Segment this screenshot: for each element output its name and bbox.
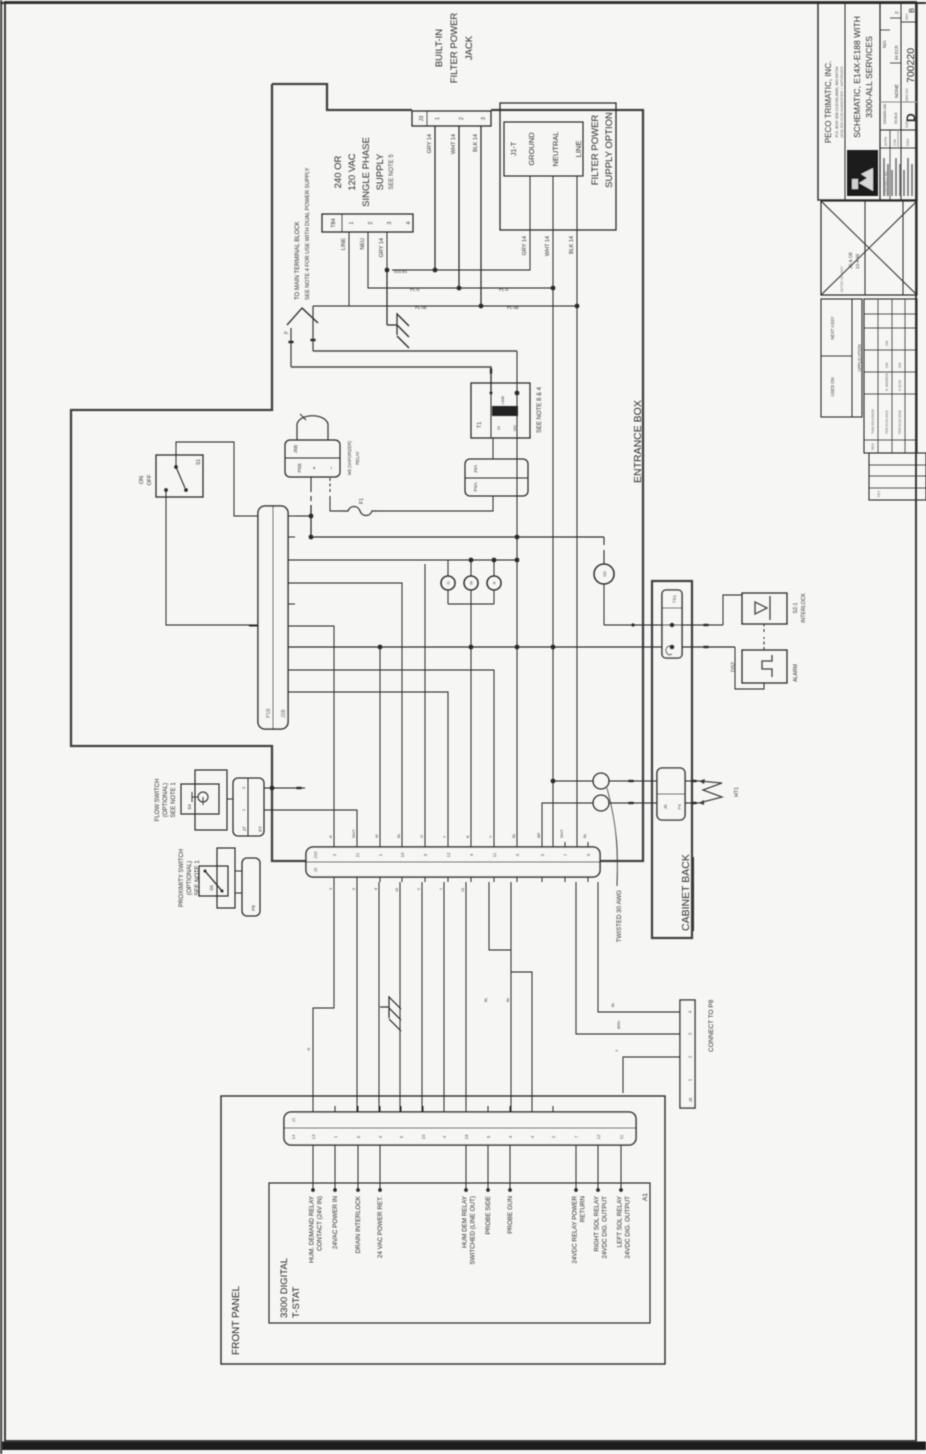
- svg-text:O: O: [420, 835, 424, 838]
- terminal block TB4: [322, 214, 413, 232]
- wire row y400: [399, 882, 401, 1112]
- junction y517 at A-bus: [515, 535, 520, 540]
- svg-text:P4A: P4A: [473, 482, 479, 492]
- svg-text:TWISTED 30 AWG: TWISTED 30 AWG: [616, 890, 623, 943]
- svg-text:DM: DM: [898, 363, 902, 368]
- svg-text:GRY 14: GRY 14: [379, 238, 385, 257]
- svg-text:TO MAIN TERMINAL BLOCK: TO MAIN TERMINAL BLOCK: [295, 221, 301, 300]
- cells: [889, 130, 891, 200]
- svg-text:NOTED ON ASSY: NOTED ON ASSY: [840, 265, 844, 292]
- svg-text:8: 8: [356, 1135, 361, 1138]
- svg-text:D: D: [904, 113, 918, 122]
- wire to T1 primary left: [291, 367, 491, 393]
- svg-text:RELAY: RELAY: [355, 451, 360, 465]
- svg-text:NEU: NEU: [360, 238, 366, 250]
- svg-text:BRN: BRN: [617, 1021, 621, 1029]
- wire line feed long y517: [516, 351, 518, 847]
- wire P1B pin y583 to J2 y402: [288, 583, 402, 847]
- connector P9: [242, 858, 260, 916]
- svg-text:3: 3: [242, 787, 246, 789]
- svg-text:24VAC POWER IN: 24VAC POWER IN: [332, 1196, 339, 1250]
- svg-text:ALARM: ALARM: [793, 664, 799, 682]
- svg-text:8: 8: [374, 888, 378, 890]
- indicator lamps: [447, 560, 449, 576]
- svg-text:FILTER POWER: FILTER POWER: [590, 115, 601, 186]
- flow switch S4: [195, 770, 227, 830]
- P1B pin stub: [288, 603, 295, 605]
- wire J1 internal y313: [312, 1145, 314, 1190]
- svg-text:#14-6S: #14-6S: [394, 269, 407, 274]
- svg-text:INTERLOCK: INTERLOCK: [801, 593, 807, 623]
- svg-text:11: 11: [492, 852, 497, 857]
- revision table extension: [869, 453, 926, 500]
- wire J1 internal y576: [575, 1145, 577, 1190]
- wire bus into DS2: [735, 647, 764, 689]
- application table: [821, 299, 862, 417]
- svg-text:J6: J6: [663, 804, 668, 809]
- svg-text:16: 16: [395, 888, 399, 892]
- svg-text:7: 7: [563, 853, 568, 856]
- connector J4A/P4A: [465, 459, 528, 496]
- cabinet back boundary box: [652, 581, 692, 938]
- svg-text:GRY 14: GRY 14: [427, 134, 433, 153]
- svg-text:(OPTIONAL): (OPTIONAL): [163, 783, 169, 817]
- wire P1B pin to J2 y448: [288, 692, 448, 847]
- svg-text:3: 3: [387, 221, 393, 224]
- lamp 2: [464, 576, 478, 590]
- company logo: [847, 150, 878, 196]
- svg-text:14: 14: [291, 1134, 296, 1140]
- svg-text:T1: T1: [477, 422, 483, 429]
- P1B pin stub: [288, 691, 295, 693]
- wire J1 internal y621: [620, 1145, 622, 1190]
- neon indicator circle device: [603, 537, 605, 545]
- svg-text:6: 6: [515, 853, 520, 856]
- wire J1 internal y380: [379, 1145, 381, 1190]
- svg-text:W: W: [469, 581, 474, 585]
- P1B pin stub: [288, 515, 295, 517]
- wire J7 pin3 down: [264, 787, 305, 789]
- frame right (portrait top edge): [0, 2, 926, 4]
- svg-text:GROUND: GROUND: [527, 132, 536, 166]
- svg-text:1: 1: [439, 888, 443, 890]
- junction y517 at 647-bus: [515, 645, 520, 650]
- svg-text:DRAWN DM: DRAWN DM: [883, 104, 887, 124]
- svg-text:BLK 14: BLK 14: [473, 134, 479, 152]
- wire lamp rail x850: [448, 603, 494, 605]
- svg-text:P1-NE: P1-NE: [415, 305, 427, 310]
- wire switch top to P1B: [176, 442, 240, 516]
- svg-text:24VDC RELAY POWER: 24VDC RELAY POWER: [572, 1196, 579, 1264]
- svg-text:15: 15: [461, 888, 465, 892]
- svg-text:2: 2: [894, 11, 900, 14]
- svg-text:6: 6: [399, 1135, 404, 1138]
- scan dark edge (portrait left): [0, 0, 2, 1454]
- wire J1-T neutral long: [552, 176, 554, 847]
- svg-text:24 VAC POWER RET.: 24 VAC POWER RET.: [377, 1196, 384, 1258]
- svg-text:P4: P4: [677, 804, 682, 810]
- svg-text:RETURN: RETURN: [580, 1196, 587, 1223]
- svg-text:G: G: [446, 581, 451, 584]
- svg-text:VAC: VAC: [513, 424, 517, 431]
- svg-text:12: 12: [446, 852, 451, 858]
- svg-text:T-STAT: T-STAT: [291, 1286, 302, 1318]
- svg-text:7: 7: [574, 1135, 579, 1138]
- wire row y379: [378, 882, 380, 1112]
- heater element HT1: [699, 781, 722, 803]
- wire to S2-1: [723, 595, 742, 625]
- svg-text:JACK: JACK: [464, 35, 475, 60]
- svg-text:CONNECT TO P8: CONNECT TO P8: [708, 999, 715, 1052]
- svg-text:10: 10: [421, 1134, 426, 1140]
- junction neutral bus to neutral wire: [551, 286, 556, 291]
- revision table: [864, 299, 917, 453]
- switch S1 on/off: [156, 455, 203, 497]
- svg-text:A: A: [492, 581, 497, 584]
- svg-text:PECO TRIMATIC, INC.: PECO TRIMATIC, INC.: [824, 61, 833, 143]
- wire J1 internal y488: [487, 1145, 489, 1190]
- wire J1 internal y598: [597, 1145, 599, 1190]
- svg-text:700220: 700220: [905, 48, 917, 83]
- svg-text:BLK 14: BLK 14: [569, 236, 575, 254]
- svg-text:R: R: [306, 1047, 311, 1050]
- P1B pin stub: [288, 536, 295, 538]
- wire J1-T line long: [576, 176, 578, 847]
- svg-text:S2-1: S2-1: [793, 602, 799, 613]
- svg-text:P9: P9: [251, 905, 256, 911]
- transformer T1: [471, 383, 530, 438]
- svg-text:S6: S6: [209, 885, 214, 891]
- svg-text:BL: BL: [484, 997, 488, 1002]
- wire row y444: [443, 882, 445, 1112]
- alarm DS2: [742, 650, 787, 683]
- svg-text:1: 1: [378, 853, 383, 856]
- svg-text:P7: P7: [258, 826, 263, 832]
- svg-text:B: B: [907, 8, 916, 13]
- svg-text:J8: J8: [688, 1097, 693, 1102]
- junction relay+ to A bus: [309, 535, 314, 540]
- svg-text:WHT: WHT: [352, 829, 356, 838]
- svg-text:+: +: [312, 466, 318, 469]
- svg-text:(816) 555-0128 HUMIDIFIER + V: (816) 555-0128 HUMIDIFIER + VAPORIZER: [840, 66, 844, 138]
- svg-text:11: 11: [355, 852, 360, 857]
- svg-text:J1B: J1B: [281, 709, 287, 718]
- terminal strip TB1: [662, 590, 682, 658]
- lamp 3: [487, 576, 501, 590]
- wire J1 internal y466: [465, 1145, 467, 1190]
- svg-text:1: 1: [349, 221, 355, 224]
- svg-text:24: 24: [497, 426, 501, 430]
- svg-text:TB1: TB1: [672, 594, 677, 603]
- svg-text:J1-T: J1-T: [511, 141, 518, 156]
- svg-text:18: 18: [464, 1134, 469, 1140]
- svg-text:CHK: CHK: [893, 138, 897, 146]
- svg-text:4: 4: [442, 1135, 447, 1138]
- svg-text:LINE: LINE: [341, 238, 347, 251]
- wire chevron upper stub: [290, 328, 292, 367]
- svg-text:−: −: [329, 466, 335, 469]
- junction J3-3 to line bus: [479, 304, 484, 309]
- wire to T1 primary right / line feed: [313, 350, 517, 352]
- svg-text:BL: BL: [284, 331, 289, 335]
- wire A bus vertical x917: [311, 536, 604, 538]
- svg-text:3: 3: [481, 117, 487, 120]
- svg-text:DS2: DS2: [731, 662, 737, 672]
- svg-text:P1-N: P1-N: [499, 287, 508, 292]
- junction J3-2 to neutral bus: [457, 286, 462, 291]
- connector J6/P4: [657, 768, 685, 820]
- svg-text:A1: A1: [642, 1193, 649, 1201]
- svg-text:120 VAC: 120 VAC: [347, 153, 358, 190]
- svg-text:MS (VAPORIZER): MS (VAPORIZER): [347, 440, 352, 475]
- junction relay+ to P1B pin: [309, 514, 314, 519]
- svg-text:PER ECN 4415: PER ECN 4415: [885, 410, 889, 434]
- junction ground rail: [385, 268, 390, 273]
- wire TB4-3 GRY ground rail: [386, 232, 388, 270]
- svg-text:ENTRANCE BOX: ENTRANCE BOX: [632, 400, 644, 483]
- wire twisted pair upper from neutral: [553, 780, 593, 782]
- svg-text:FRONT PANEL: FRONT PANEL: [231, 1285, 242, 1355]
- leader twisted 30 awg: [607, 788, 617, 886]
- svg-text:J10: J10: [313, 851, 318, 859]
- svg-text:P1B: P1B: [266, 708, 272, 718]
- wire row y466: [465, 882, 467, 1112]
- svg-text:2: 2: [551, 1135, 556, 1138]
- svg-text:J7: J7: [242, 826, 247, 831]
- tolerance notes block: [883, 158, 885, 196]
- svg-text:24VDC DIG. OUTPUT: 24VDC DIG. OUTPUT: [625, 1196, 632, 1259]
- svg-text:5: 5: [352, 888, 356, 890]
- svg-text:SEE NOTE 4 FOR USE WITH DUAL P: SEE NOTE 4 FOR USE WITH DUAL POWER SUPPL…: [305, 167, 311, 300]
- svg-text:PROXIMITY SWITCH: PROXIMITY SWITCH: [179, 849, 185, 907]
- svg-text:DM: DM: [885, 341, 889, 346]
- svg-text:SINGLE PHASE: SINGLE PHASE: [361, 137, 372, 207]
- wire switch bottom to P1B top pin: [166, 490, 258, 625]
- svg-text:P1-NE: P1-NE: [507, 305, 519, 310]
- wire J1 internal y358: [357, 1145, 359, 1190]
- svg-text:SEE NOTE 5: SEE NOTE 5: [389, 154, 395, 190]
- svg-text:DWG NO.: DWG NO.: [905, 88, 909, 102]
- P1B top pin to switch bottom wire: [249, 625, 258, 627]
- svg-text:LINE: LINE: [501, 395, 505, 404]
- svg-text:4: 4: [406, 221, 412, 224]
- svg-text:GD: GD: [603, 571, 607, 577]
- connector J2/J10: [306, 847, 600, 877]
- svg-text:12: 12: [596, 1134, 601, 1140]
- svg-text:FLOW SWITCH: FLOW SWITCH: [155, 779, 161, 822]
- svg-text:NEUTRAL: NEUTRAL: [551, 131, 560, 166]
- wire circle to bus x829: [603, 584, 605, 625]
- svg-text:SUPPLY OPTION: SUPPLY OPTION: [604, 112, 615, 188]
- svg-text:4-15-93: 4-15-93: [898, 380, 902, 391]
- P1B pin stub: [288, 559, 295, 561]
- P1B pin stub: [288, 646, 295, 648]
- svg-text:9: 9: [423, 853, 428, 856]
- wire fuse to relay minus: [330, 496, 340, 511]
- wire TB4-1 to LINE rail: [348, 232, 350, 306]
- svg-text:SWITCHED (LINE OUT): SWITCHED (LINE OUT): [470, 1196, 477, 1265]
- connector J8 connect to P8: [680, 1000, 695, 1108]
- wire J2 y425: [424, 564, 426, 847]
- svg-text:WHT 14: WHT 14: [451, 134, 457, 154]
- chevron arrow: to main terminal block: [287, 308, 318, 325]
- svg-text:3: 3: [688, 1032, 693, 1035]
- wire lamp rail x894: [288, 559, 517, 561]
- svg-text:2: 2: [459, 117, 465, 120]
- svg-text:CABINET BACK: CABINET BACK: [680, 854, 692, 931]
- svg-text:DM: DM: [885, 363, 889, 368]
- interlock S2-1: [742, 593, 787, 624]
- svg-text:J2: J2: [313, 867, 318, 872]
- wire J7 pin1 to J2 y357: [264, 810, 357, 847]
- 3300 digital t-stat box A1: [269, 1183, 650, 1323]
- svg-text:P5B: P5B: [297, 463, 303, 472]
- lamp 1: [441, 576, 455, 590]
- wire row R to J1 pin: [313, 882, 334, 1112]
- svg-text:3300-ALL SERVICES: 3300-ALL SERVICES: [864, 36, 874, 118]
- title block divider 1: [844, 3, 846, 200]
- wire LINE rail vertical: [313, 305, 577, 307]
- svg-text:SEE NOTE 1: SEE NOTE 1: [195, 860, 201, 896]
- svg-text:SCALE: SCALE: [894, 112, 898, 124]
- switch blade: [176, 467, 185, 488]
- svg-text:J3: J3: [419, 116, 425, 122]
- connector P1B/J1B: [258, 506, 288, 729]
- entrance box outline upper right: [272, 84, 412, 110]
- connector J1/JP1: [284, 1112, 636, 1145]
- svg-text:BR: BR: [537, 832, 541, 838]
- wire twisted pair lower: [542, 803, 593, 847]
- svg-text:84 ECR: 84 ECR: [894, 45, 899, 60]
- svg-text:10: 10: [400, 852, 405, 858]
- earth ground symbol (24vac): [380, 996, 401, 1031]
- svg-text:WHT 14: WHT 14: [545, 236, 551, 256]
- svg-text:TB4: TB4: [331, 218, 337, 227]
- svg-text:BL: BL: [611, 1002, 615, 1007]
- svg-text:HT1: HT1: [734, 787, 740, 797]
- svg-text:1: 1: [333, 1135, 338, 1138]
- svg-text:1: 1: [435, 117, 441, 120]
- svg-text:24VDC DIG. OUTPUT: 24VDC DIG. OUTPUT: [602, 1196, 609, 1259]
- wire T1 sec 1 to J4A: [492, 438, 494, 459]
- svg-text:4: 4: [688, 1010, 693, 1013]
- svg-text:ON: ON: [139, 476, 145, 484]
- svg-text:240 OR: 240 OR: [333, 155, 344, 188]
- svg-text:NONE: NONE: [894, 84, 900, 98]
- svg-text:SEE NOTE 1: SEE NOTE 1: [171, 782, 177, 818]
- svg-text:CONTACT (24V IN): CONTACT (24V IN): [317, 1196, 324, 1251]
- filter power supply option box: [500, 103, 616, 230]
- svg-text:SUPPLY: SUPPLY: [375, 153, 386, 190]
- svg-text:LINE: LINE: [574, 141, 583, 158]
- T1 primary internal: [490, 393, 492, 438]
- entrance box outline: [71, 84, 643, 861]
- title block divider 2: [879, 3, 881, 200]
- svg-text:LEFT SOL RELAY: LEFT SOL RELAY: [617, 1195, 624, 1247]
- connector J1-T: [504, 122, 583, 176]
- svg-text:FILTER POWER: FILTER POWER: [449, 13, 460, 84]
- wire row y357: [356, 882, 358, 1112]
- wire row jog 511-532: [511, 882, 532, 1112]
- svg-text:J4A: J4A: [473, 464, 479, 473]
- svg-text:11: 11: [619, 1134, 624, 1139]
- wire J1 internal y510: [509, 1145, 511, 1190]
- wire J3-3 BLK 14: [480, 126, 482, 306]
- svg-text:4: 4: [530, 1135, 535, 1138]
- svg-text:P.O. BOX 328 CLEVELAND, MO 6: P.O. BOX 328 CLEVELAND, MO 64734: [834, 66, 839, 137]
- svg-text:(OPTIONAL): (OPTIONAL): [187, 861, 193, 895]
- svg-text:USED ON: USED ON: [830, 377, 835, 396]
- svg-text:N/A: N/A: [882, 39, 887, 48]
- fuse F1: [340, 507, 377, 516]
- svg-text:13: 13: [311, 1134, 316, 1140]
- connector J3 built-in filter power jack: [412, 111, 491, 126]
- svg-text:2: 2: [688, 1055, 693, 1058]
- wire J1-T ground: [392, 176, 530, 270]
- svg-text:RIGHT SOL RELAY: RIGHT SOL RELAY: [594, 1195, 601, 1251]
- svg-text:JD & OE: JD & OE: [848, 252, 853, 269]
- svg-text:BL: BL: [512, 833, 516, 838]
- svg-text:REV: REV: [877, 490, 881, 497]
- wire relay plus dashed: [310, 477, 312, 492]
- junction line bus to line wire: [575, 304, 580, 309]
- scan black edge bar (portrait bottom): [0, 1442, 926, 1451]
- P1B pin stub: [288, 625, 295, 627]
- P1B top pin to switch wire: [240, 515, 258, 517]
- crossed application box: [821, 201, 917, 295]
- svg-text:4: 4: [508, 1135, 513, 1138]
- svg-text:SCHEMATIC, E14X-E188 WITH: SCHEMATIC, E14X-E188 WITH: [852, 16, 862, 138]
- svg-text:6: 6: [486, 1135, 491, 1138]
- svg-text:WHT: WHT: [560, 829, 564, 838]
- wire J2 y380 to 647 bus: [379, 647, 381, 847]
- svg-text:REV: REV: [871, 442, 875, 450]
- svg-text:W: W: [375, 834, 379, 838]
- wire 647 bus x807 long: [288, 646, 735, 648]
- svg-text:APPR: APPR: [884, 136, 888, 146]
- svg-text:BL: BL: [506, 997, 510, 1002]
- svg-text:P1-N: P1-N: [410, 287, 419, 292]
- connector J5B/P5B MS vaporizer relay: [285, 440, 340, 477]
- svg-text:ENG: ENG: [906, 138, 910, 146]
- svg-text:N. ANDREW: N. ANDREW: [885, 373, 889, 391]
- earth ground symbol (supply): [386, 270, 388, 325]
- junction y517 lamp rail: [515, 558, 520, 563]
- svg-text:3: 3: [329, 888, 333, 890]
- svg-text:2: 2: [332, 853, 337, 856]
- wire bus x829 down: [604, 624, 723, 626]
- svg-text:APPLICATION: APPLICATION: [857, 344, 862, 371]
- svg-text:DRAIN INTERLOCK: DRAIN INTERLOCK: [355, 1195, 362, 1253]
- svg-text:1: 1: [688, 1078, 693, 1081]
- P1B pin stub: [288, 669, 295, 671]
- svg-text:1: 1: [242, 809, 246, 811]
- svg-text:BL: BL: [397, 833, 401, 838]
- svg-text:BUILT-IN: BUILT-IN: [434, 29, 445, 67]
- svg-text:J5B: J5B: [293, 445, 299, 453]
- wire J3-1 GRY 14: [434, 126, 436, 270]
- wire TB4-2 NEU rail: [368, 232, 553, 288]
- svg-text:SEE NOTE 8 & 4: SEE NOTE 8 & 4: [537, 386, 543, 433]
- svg-text:8: 8: [586, 853, 591, 856]
- junction lamp tap at 647-bus: [469, 645, 474, 650]
- wire J3-2 WHT 14: [458, 126, 460, 288]
- wire row y422: [421, 882, 423, 1112]
- svg-text:10-4-95: 10-4-95: [855, 253, 860, 269]
- wire P1B pin to J2 y494: [288, 670, 494, 847]
- svg-text:J1: J1: [291, 1117, 296, 1122]
- wire to J8 pin3: [576, 882, 680, 1034]
